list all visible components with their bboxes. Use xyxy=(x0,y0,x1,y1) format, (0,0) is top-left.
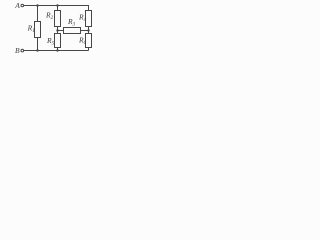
svg-text:B: B xyxy=(15,46,20,55)
svg-text:R2: R2 xyxy=(45,11,54,22)
svg-text:A: A xyxy=(14,1,20,10)
svg-text:R1: R1 xyxy=(27,24,35,35)
svg-text:R5: R5 xyxy=(46,36,55,47)
svg-text:R3: R3 xyxy=(67,17,76,28)
